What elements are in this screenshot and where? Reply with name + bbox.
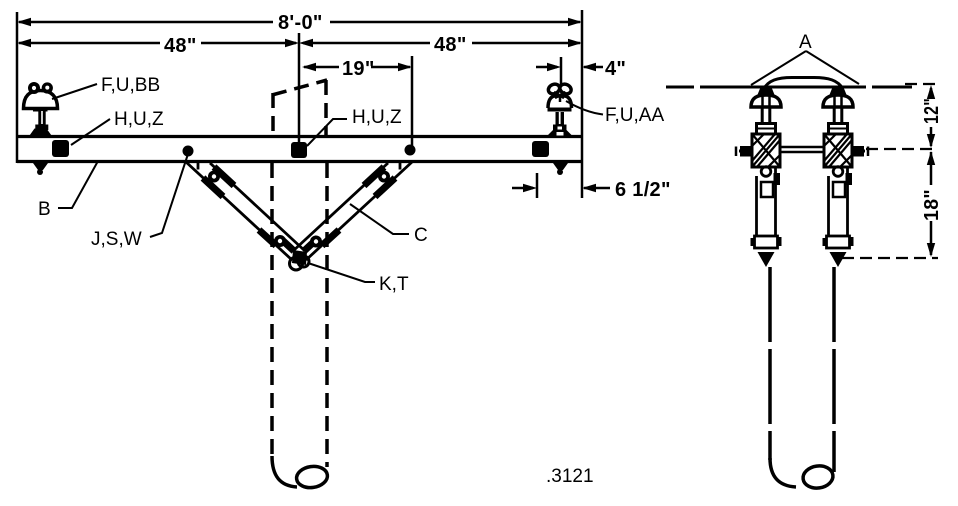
svg-text:K,T: K,T bbox=[379, 274, 409, 295]
svg-text:H,U,Z: H,U,Z bbox=[114, 109, 164, 130]
svg-text:.3121: .3121 bbox=[546, 466, 594, 487]
svg-text:J,S,W: J,S,W bbox=[91, 229, 142, 250]
svg-text:8'-0": 8'-0" bbox=[278, 12, 323, 34]
svg-text:4": 4" bbox=[605, 58, 626, 80]
svg-text:18": 18" bbox=[921, 189, 943, 221]
svg-text:48": 48" bbox=[434, 34, 467, 56]
svg-text:B: B bbox=[38, 199, 51, 220]
svg-text:19": 19" bbox=[342, 58, 375, 80]
svg-text:F,U,AA: F,U,AA bbox=[605, 105, 664, 126]
svg-text:F,U,BB: F,U,BB bbox=[101, 75, 160, 96]
svg-text:A: A bbox=[799, 32, 812, 53]
svg-text:H,U,Z: H,U,Z bbox=[352, 107, 402, 128]
svg-text:C: C bbox=[414, 225, 428, 246]
svg-text:6 1/2": 6 1/2" bbox=[615, 179, 671, 201]
svg-text:48": 48" bbox=[164, 35, 197, 57]
svg-text:12": 12" bbox=[921, 98, 943, 124]
